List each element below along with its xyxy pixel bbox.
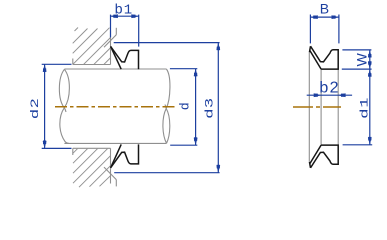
dimension d1 line (369, 69, 371, 145)
pulley profile lower groove (right view, black) (309, 145, 338, 168)
dimension W arrowheads (368, 50, 372, 69)
dimension d1 extension line (343, 144, 373, 146)
hatching of lower wall block (left view) (73, 149, 110, 188)
upper wall block outline (left view) (73, 31, 111, 65)
break line at bottom right of lower wall block (104, 167, 116, 186)
svg-text:W: W (353, 52, 369, 66)
svg-text:b1: b1 (115, 1, 134, 19)
pulley profile upper groove (right view, black) (309, 46, 338, 69)
dimension b1 line (111, 15, 139, 17)
shaft bottom edge (64, 142, 166, 144)
dimension d2 arrowheads (43, 64, 47, 148)
dimension d3 arrowheads (216, 43, 220, 173)
dimension B line (310, 16, 339, 18)
dimension B extension lines (310, 15, 339, 44)
dimension d1 arrowheads (368, 69, 372, 145)
dimension d line (195, 69, 197, 146)
dimension d2 extension lines (42, 64, 72, 148)
dimension B arrowheads (310, 15, 339, 19)
svg-text:B: B (320, 1, 329, 17)
dimension d3 line (217, 43, 219, 173)
shaft left break curve (59, 69, 69, 143)
dimension W extension lines (342, 50, 372, 69)
dimension b1 arrowheads (111, 14, 139, 18)
pulley groove section lower (left view, black) (111, 144, 139, 167)
pulley groove section upper (left view, black) (111, 46, 139, 69)
dimension b2 line (307, 94, 352, 96)
svg-text:d1: d1 (358, 96, 371, 118)
dimension d arrowheads (194, 69, 198, 146)
svg-text:b2: b2 (319, 80, 339, 97)
shaft top edge (64, 68, 166, 70)
svg-text:d3: d3 (203, 97, 215, 118)
dimension d2 line (44, 64, 46, 148)
dimension W line (369, 50, 371, 69)
pulley web lines (right view, gray) (309, 53, 338, 161)
break line at top right of upper wall block (104, 28, 116, 48)
dimension d3 extension lines (114, 43, 220, 173)
svg-text:d2: d2 (29, 97, 41, 118)
dimension d extension lines (170, 69, 197, 146)
hatching of upper wall block (left view) (73, 28, 111, 65)
dimension b1 extension lines (111, 15, 139, 47)
centerline left view (olive dash-dot) (55, 106, 176, 108)
centerline right view (olive dash-dot) (293, 106, 341, 108)
lower wall block outline (left view) (73, 148, 111, 183)
svg-text:d: d (177, 103, 192, 110)
dimension b2 arrowheads (314, 93, 346, 97)
shaft right break curve (163, 69, 170, 143)
